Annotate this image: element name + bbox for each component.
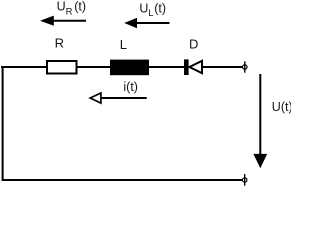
svg-text:L: L [120, 37, 127, 52]
wire: top net, left corner to resistor R [1, 66, 47, 68]
wire: bottom net to bottom terminal [2, 179, 243, 181]
svg-text:U(t): U(t) [272, 100, 291, 114]
svg-text:UR(t): UR(t) [57, 0, 86, 18]
wire: left vertical return [2, 66, 4, 181]
diode D cathode bar [184, 59, 189, 75]
inductor L (filled bar) [110, 60, 149, 76]
arrow: voltage U(t), pointing down [253, 74, 267, 168]
terminal: bottom right (phi) [242, 174, 247, 186]
arrow: voltage U_L(t), pointing left [124, 18, 169, 28]
wire: diode D to top terminal [202, 66, 243, 68]
terminal: top right (phi) [243, 61, 248, 72]
arrow: voltage U_R(t), pointing left [40, 16, 86, 26]
wire: resistor R to inductor L [76, 66, 111, 68]
wire: inductor L to diode D [148, 66, 185, 68]
resistor R [47, 61, 77, 74]
diode D triangle [189, 61, 202, 73]
svg-text:D: D [189, 37, 198, 52]
svg-text:R: R [55, 36, 64, 51]
svg-text:i(t): i(t) [123, 80, 138, 94]
svg-text:UL(t): UL(t) [139, 2, 166, 19]
arrow: current i(t), open head pointing left [90, 93, 147, 103]
